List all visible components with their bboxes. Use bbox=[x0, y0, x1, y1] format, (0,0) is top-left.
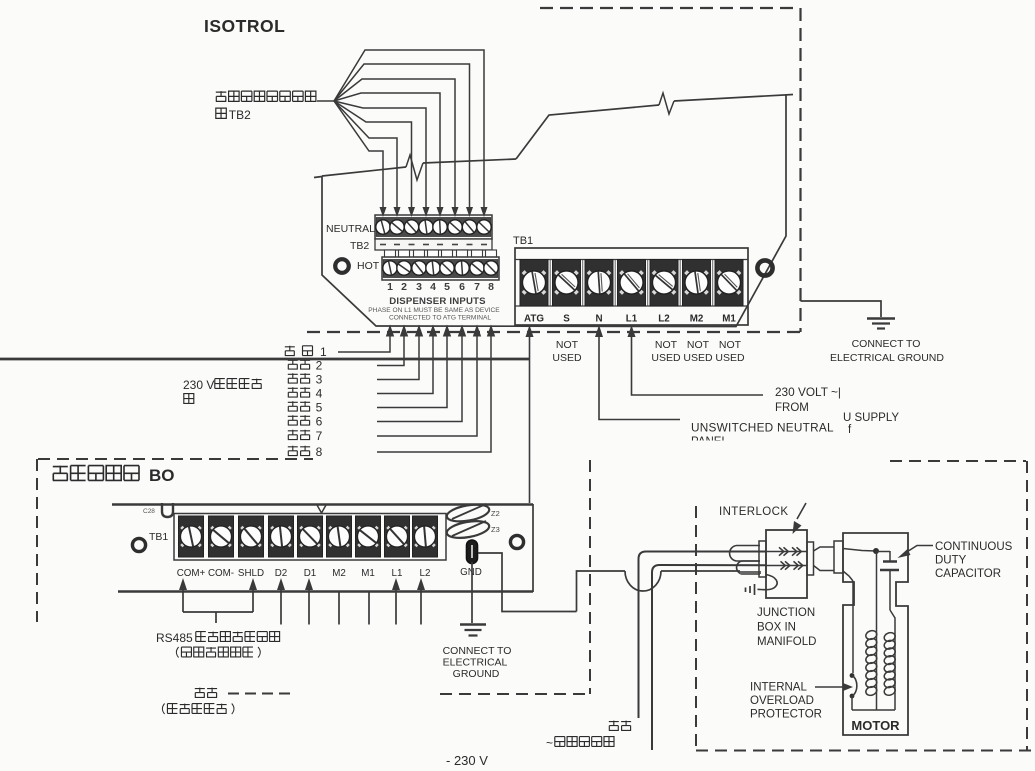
wire: neutral A from power board bbox=[639, 552, 767, 719]
svg-text:GROUND: GROUND bbox=[453, 668, 500, 680]
svg-text:Z3: Z3 bbox=[491, 525, 500, 534]
terminal SHLD bbox=[239, 516, 264, 557]
capacitor C (continuous duty) bbox=[889, 551, 891, 561]
svg-text:- 230 V: - 230 V bbox=[446, 753, 488, 768]
TB1 terminal N bbox=[585, 260, 613, 307]
mounting hole right (control box) bbox=[510, 535, 523, 548]
svg-text:DISPENSER INPUTS: DISPENSER INPUTS bbox=[389, 296, 486, 307]
wire: neutral fan to terminal 7 bbox=[334, 64, 470, 209]
wire to electrical ground (upper right) bbox=[801, 301, 882, 317]
svg-text:FROM: FROM bbox=[775, 402, 809, 414]
TB1 terminal M2 bbox=[683, 260, 711, 307]
wire: entry to overload protector bbox=[843, 571, 853, 581]
wire: N (unswitched neutral) bbox=[599, 330, 680, 420]
svg-text:PROTECTOR: PROTECTOR bbox=[750, 709, 822, 721]
inductor Z2 bbox=[446, 502, 491, 524]
svg-text:D2: D2 bbox=[275, 568, 288, 579]
mounting hole left (control box) bbox=[132, 538, 145, 551]
svg-text:M1: M1 bbox=[722, 314, 736, 325]
svg-text:RS485: RS485 bbox=[156, 631, 193, 645]
svg-text:PHASE ON L1 MUST BE SAME AS DE: PHASE ON L1 MUST BE SAME AS DEVICE bbox=[368, 307, 500, 314]
svg-text:MANIFOLD: MANIFOLD bbox=[757, 636, 816, 648]
coupling at junction box right bbox=[807, 542, 814, 575]
label: neutral connection note (Chinese) bbox=[216, 91, 227, 101]
motor winding left bbox=[865, 629, 878, 640]
wire: neutral fan to terminal 8 bbox=[334, 50, 484, 209]
wire: field connection arrow bbox=[179, 578, 187, 590]
ground symbol (upper right) bbox=[867, 317, 895, 320]
terminal block TB1 bbox=[515, 248, 748, 325]
quick connector symbol bbox=[754, 584, 756, 595]
terminal M1 bbox=[356, 516, 381, 557]
wire: neutral fan to terminal 2 bbox=[334, 101, 397, 209]
TB1 terminal L1 bbox=[618, 260, 646, 307]
wire: neutral fan to terminal 6 bbox=[334, 79, 455, 209]
wires between couplings bbox=[814, 547, 835, 551]
svg-text:CAPACITOR: CAPACITOR bbox=[935, 568, 1001, 580]
wire: dispenser input channel 1 bbox=[338, 330, 390, 352]
wire: field connection arrow bbox=[305, 578, 313, 590]
svg-text:ATG: ATG bbox=[524, 314, 544, 325]
svg-text:C28: C28 bbox=[143, 508, 155, 515]
interlock pointer arrow bbox=[797, 503, 806, 519]
TB1 terminal L2 bbox=[650, 260, 678, 307]
internal overload protector bbox=[850, 673, 855, 678]
label neutral line (Chinese) bbox=[195, 688, 205, 698]
wire: dispenser input channel 7 bbox=[377, 330, 477, 436]
dashed enclosure around motor assembly bbox=[695, 506, 697, 750]
svg-text:GND: GND bbox=[460, 567, 482, 578]
RS485 pair bracket bbox=[183, 611, 253, 613]
TB2 HOT row top strip bbox=[385, 250, 396, 257]
V notch on top edge bbox=[317, 505, 326, 513]
svg-text:D1: D1 bbox=[304, 568, 317, 579]
svg-text:DUTY: DUTY bbox=[935, 555, 967, 567]
main signal bus wire (thick) bbox=[0, 358, 530, 361]
wire: dispenser input channel 4 bbox=[377, 330, 433, 394]
svg-text:5: 5 bbox=[444, 281, 450, 293]
svg-text:7: 7 bbox=[316, 429, 323, 443]
svg-text:TB1: TB1 bbox=[149, 531, 168, 543]
svg-text:CONNECT TO: CONNECT TO bbox=[443, 645, 512, 657]
svg-text:2: 2 bbox=[316, 359, 323, 373]
dashed enclosure around ISOTROL unit bbox=[540, 7, 800, 9]
svg-text:USED: USED bbox=[683, 352, 713, 364]
motor winding right bbox=[883, 631, 896, 642]
svg-text:M2: M2 bbox=[690, 314, 704, 325]
mounting hole right bbox=[757, 260, 772, 275]
wire: dispenser input channel 6 bbox=[377, 330, 462, 422]
svg-text:Z2: Z2 bbox=[491, 509, 500, 518]
svg-text:COM+: COM+ bbox=[177, 568, 206, 579]
svg-text:CONNECT TO: CONNECT TO bbox=[852, 338, 921, 350]
svg-text:230 VOLT ~|: 230 VOLT ~| bbox=[775, 385, 841, 399]
svg-text:1: 1 bbox=[320, 345, 327, 359]
svg-text:INTERNAL: INTERNAL bbox=[750, 682, 807, 694]
wire: ATG to control box bbox=[529, 330, 531, 503]
svg-text:INTERLOCK: INTERLOCK bbox=[719, 506, 788, 518]
interlock contacts row 1 bbox=[766, 551, 807, 553]
outline jog up bbox=[516, 105, 659, 159]
coupling at motor entry bbox=[834, 541, 843, 573]
terminal strip TB1 (control box) bbox=[174, 514, 446, 561]
wire: field connection arrow bbox=[277, 578, 285, 590]
wire: neutral fan to terminal 4 bbox=[334, 101, 426, 209]
control box outline bbox=[112, 503, 533, 506]
svg-text:USED: USED bbox=[651, 352, 681, 364]
svg-text:NOT: NOT bbox=[655, 339, 678, 351]
terminal L2 bbox=[413, 516, 438, 557]
control box title (Chinese) BO bbox=[53, 466, 68, 481]
svg-text:CONTINUOUS: CONTINUOUS bbox=[935, 541, 1013, 553]
svg-text:3: 3 bbox=[316, 373, 323, 387]
wire: L1 (230V supply) bbox=[632, 330, 764, 395]
svg-text:NEUTRAL: NEUTRAL bbox=[326, 223, 375, 235]
svg-text:L2: L2 bbox=[420, 568, 431, 579]
svg-text:BOX IN: BOX IN bbox=[757, 622, 796, 634]
svg-text:SHLD: SHLD bbox=[238, 568, 264, 579]
terminal D1 bbox=[298, 516, 323, 557]
svg-text:NOT: NOT bbox=[556, 339, 579, 351]
TB2 lower strip bbox=[375, 239, 492, 250]
svg-text:NOT: NOT bbox=[719, 339, 742, 351]
wire: field connection arrow bbox=[368, 592, 370, 625]
ground symbol (control box) bbox=[460, 623, 486, 626]
svg-text:USED: USED bbox=[715, 352, 745, 364]
overload pointer arrow bbox=[815, 686, 845, 688]
svg-text:7: 7 bbox=[474, 281, 480, 293]
wire: field connection arrow bbox=[417, 578, 425, 590]
svg-text:NOT: NOT bbox=[687, 339, 710, 351]
wire: GND run to junction box (with hop) bbox=[478, 553, 574, 612]
capacitor pointer arrow bbox=[906, 546, 933, 553]
wire: neutral fan to terminal 1 bbox=[334, 101, 383, 209]
winding bottom bus bbox=[852, 709, 895, 711]
svg-text:TB2: TB2 bbox=[350, 240, 369, 252]
terminal COM- bbox=[209, 516, 234, 557]
svg-text:UNSWITCHED NEUTRAL: UNSWITCHED NEUTRAL bbox=[691, 421, 834, 435]
svg-text:TB1: TB1 bbox=[513, 235, 533, 247]
svg-text:L1: L1 bbox=[392, 568, 403, 579]
wire: neutral fan to terminal 3 bbox=[334, 101, 412, 209]
svg-text:BO: BO bbox=[149, 466, 175, 485]
svg-text:3: 3 bbox=[416, 281, 422, 293]
svg-text:ISOTROL: ISOTROL bbox=[204, 16, 285, 36]
svg-text:HOT: HOT bbox=[357, 260, 380, 272]
wire: field connection arrow bbox=[249, 578, 257, 590]
svg-text:N: N bbox=[595, 314, 602, 325]
wire: node to capacitor bbox=[876, 551, 890, 553]
terminal M2 bbox=[327, 516, 352, 557]
svg-text:JUNCTION: JUNCTION bbox=[757, 607, 815, 619]
wire: GND to earth bbox=[471, 562, 473, 623]
GND terminal pill bbox=[467, 540, 478, 564]
svg-text:S: S bbox=[563, 314, 570, 325]
TB1 terminal M1 bbox=[715, 260, 743, 307]
svg-text:USED: USED bbox=[552, 352, 582, 364]
svg-text:4: 4 bbox=[316, 387, 323, 401]
svg-text:OVERLOAD: OVERLOAD bbox=[750, 695, 814, 707]
svg-text:CONNECTED TO ATG TERMINAL: CONNECTED TO ATG TERMINAL bbox=[389, 315, 491, 322]
junction box pigtail bbox=[758, 575, 778, 590]
terminal block TB2 HOT row bbox=[382, 257, 499, 280]
svg-text:1: 1 bbox=[387, 281, 393, 293]
wire: field connection arrow bbox=[338, 592, 340, 625]
wire: dispenser input channel 2 bbox=[377, 330, 404, 366]
svg-text:M1: M1 bbox=[361, 568, 375, 579]
svg-text:8: 8 bbox=[488, 281, 494, 293]
svg-text:2: 2 bbox=[401, 281, 407, 293]
svg-text:L1: L1 bbox=[626, 314, 638, 325]
svg-text:4: 4 bbox=[430, 281, 436, 293]
interlock contacts row 2 bbox=[766, 565, 807, 567]
svg-text:M2: M2 bbox=[332, 568, 346, 579]
svg-text:MOTOR: MOTOR bbox=[851, 718, 900, 733]
terminal L1 bbox=[385, 516, 410, 557]
svg-text:TB2: TB2 bbox=[229, 108, 251, 122]
svg-text:6: 6 bbox=[316, 415, 323, 429]
svg-text:5: 5 bbox=[316, 401, 323, 415]
wire: motor winding feeds bbox=[876, 551, 878, 710]
svg-text:230 V: 230 V bbox=[183, 378, 214, 392]
dashed enclosure around control box bbox=[36, 459, 38, 622]
terminal D2 bbox=[269, 516, 294, 557]
wire: dispenser input channel 5 bbox=[377, 330, 447, 408]
wire: dispenser input channel 8 bbox=[377, 330, 491, 452]
terminal COM+ bbox=[179, 516, 204, 557]
inductor Z3 bbox=[446, 518, 491, 540]
wire: into motor to junction node bbox=[843, 549, 876, 552]
svg-text:U SUPPLY: U SUPPLY bbox=[843, 412, 899, 424]
break symbol on outline (right) bbox=[659, 93, 674, 114]
conduit bushing upper bbox=[730, 546, 760, 562]
svg-text:ELECTRICAL: ELECTRICAL bbox=[443, 657, 508, 669]
junction box (interlock) bbox=[766, 530, 807, 598]
motor outline bbox=[843, 533, 908, 735]
svg-text:L2: L2 bbox=[658, 314, 670, 325]
wire: neutral B from power board bbox=[652, 565, 766, 750]
leader line to wire fan bbox=[317, 100, 334, 102]
coupling at junction box left bbox=[759, 541, 766, 577]
TB1 terminal S bbox=[553, 260, 581, 307]
svg-text:6: 6 bbox=[459, 281, 465, 293]
svg-text:COM-: COM- bbox=[208, 568, 234, 579]
mounting hole left bbox=[335, 259, 349, 273]
terminal block TB2 NEUTRAL row bbox=[375, 215, 492, 239]
channel labels (Chinese) bbox=[285, 346, 295, 356]
junction node bbox=[873, 548, 879, 554]
svg-text:~: ~ bbox=[546, 736, 553, 750]
wire: field connection arrow bbox=[392, 578, 400, 590]
break symbol on outline (left) bbox=[406, 155, 423, 180]
TB1 terminal ATG bbox=[520, 260, 548, 307]
label neutral line to motor (Chinese) bbox=[609, 721, 619, 731]
svg-text:8: 8 bbox=[316, 445, 323, 459]
wire: dispenser input channel 3 bbox=[377, 330, 419, 380]
wire: neutral fan to terminal 5 bbox=[334, 93, 440, 209]
svg-text:ELECTRICAL GROUND: ELECTRICAL GROUND bbox=[830, 352, 944, 364]
ISOTROL unit outline (slanted, with break marks) bbox=[314, 95, 786, 327]
conduit bushing lower bbox=[737, 561, 760, 574]
